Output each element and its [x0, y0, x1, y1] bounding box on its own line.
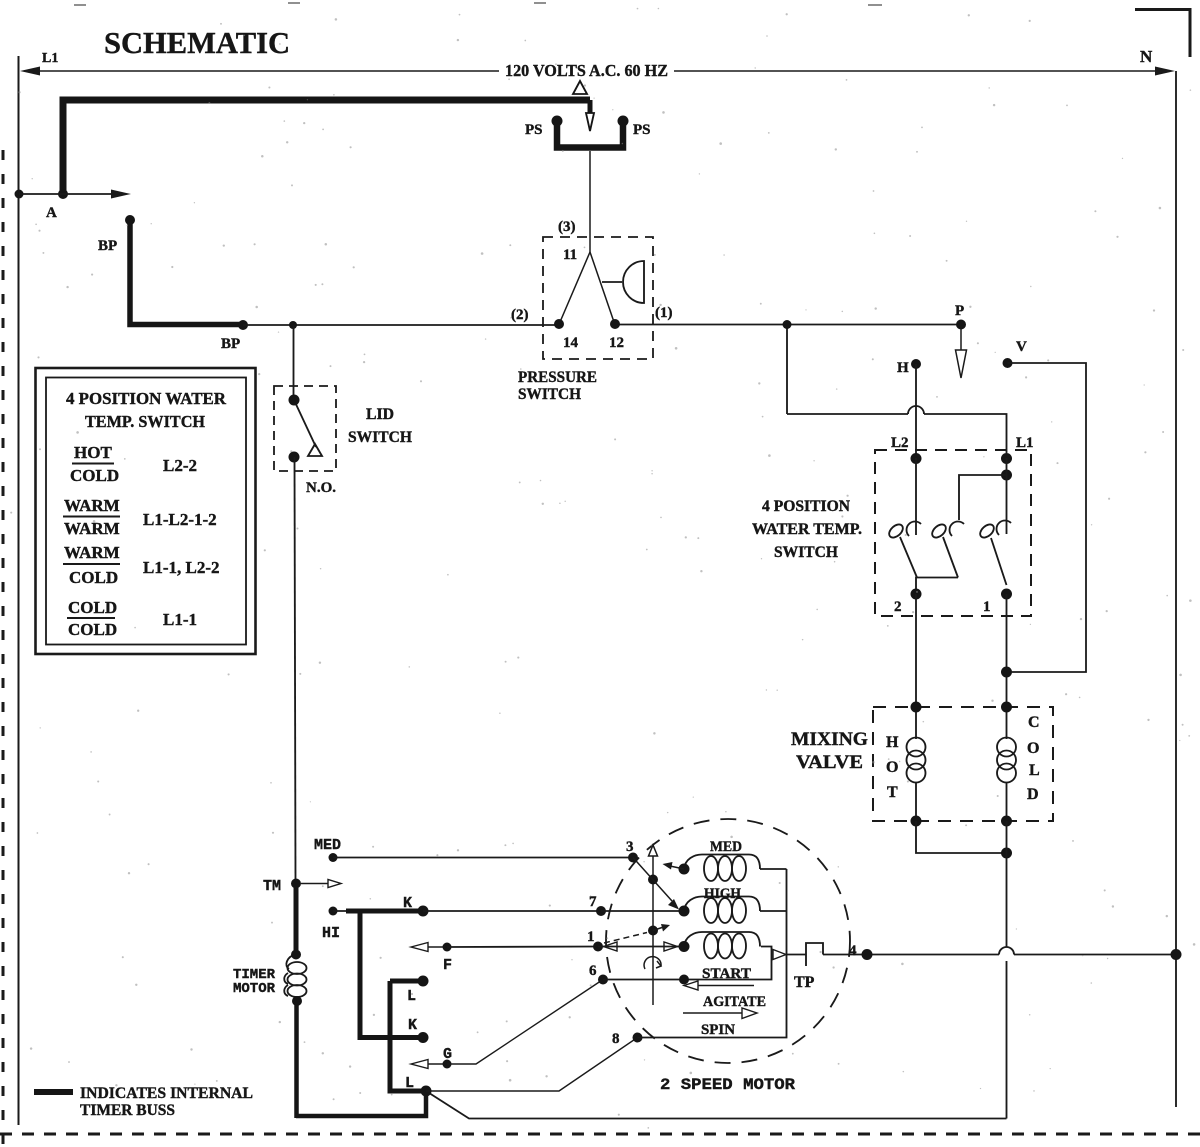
- hot solenoid coil: [907, 707, 926, 821]
- node wiper med: [648, 875, 658, 885]
- label 1: [587, 929, 595, 945]
- table row HOT/COLD: [70, 443, 197, 485]
- svg-text:8: 8: [612, 1031, 620, 1047]
- svg-text:O: O: [886, 759, 898, 776]
- svg-text:MOTOR: MOTOR: [233, 981, 276, 997]
- rotation arc: [644, 957, 661, 969]
- svg-text:TIMER BUSS: TIMER BUSS: [80, 1102, 175, 1119]
- node L2: [911, 453, 922, 464]
- legend buss sample: [34, 1089, 73, 1095]
- open arrow to TP: [773, 950, 786, 960]
- node PS left: [552, 116, 563, 127]
- svg-text:(1): (1): [655, 305, 673, 321]
- node 6 wire join: [679, 975, 689, 985]
- fraction line 1: [72, 463, 114, 465]
- label 8: [612, 1031, 620, 1047]
- label F: [443, 957, 452, 974]
- svg-text:SCHEMATIC: SCHEMATIC: [104, 25, 290, 60]
- water temp switch box: [875, 450, 1031, 616]
- table row WARM/COLD: [64, 543, 220, 587]
- motor dashed circle: [606, 819, 850, 1063]
- mixing valve box: [873, 707, 1053, 821]
- label HOT vertical: [886, 734, 899, 801]
- svg-text:N.O.: N.O.: [306, 480, 336, 496]
- svg-text:(2): (2): [511, 307, 529, 323]
- moving contact oval C: [978, 522, 997, 540]
- cold solenoid coil: [997, 707, 1016, 821]
- svg-text:3: 3: [626, 839, 634, 855]
- timer buss K bracket: [346, 911, 423, 1038]
- label MED: [314, 837, 341, 854]
- svg-text:TM: TM: [263, 878, 281, 895]
- svg-text:L: L: [405, 1075, 414, 1092]
- node BP top: [125, 215, 135, 225]
- label V: [1016, 339, 1027, 355]
- svg-text:F: F: [443, 957, 452, 974]
- wire 120V supply line with arrows: [20, 67, 1175, 76]
- label (2): [511, 307, 529, 323]
- node motor 3: [628, 853, 638, 863]
- svg-text:HIGH: HIGH: [704, 886, 741, 902]
- node L1: [1001, 453, 1012, 464]
- stationary contact cup B: [950, 522, 964, 536]
- node N border junction: [1171, 949, 1182, 960]
- wire motor 4 to N border: [867, 947, 1176, 955]
- label LID SWITCH: [348, 406, 413, 446]
- label A: [46, 205, 57, 221]
- svg-text:K: K: [408, 1017, 417, 1034]
- svg-text:2: 2: [894, 599, 902, 615]
- wire V to cold valve line: [1008, 363, 1087, 672]
- wire 1 to start coil: [598, 946, 684, 948]
- thermal protector TP: [806, 943, 863, 966]
- wire PS to pressure switch pivot: [589, 151, 591, 252]
- node cold bottom: [1001, 816, 1012, 827]
- water temp table outer box: [36, 368, 256, 654]
- wire main row to pressure switch: [243, 324, 961, 327]
- svg-text:T: T: [887, 784, 898, 801]
- svg-text:L: L: [1029, 762, 1040, 779]
- fraction line 3: [63, 563, 120, 565]
- label HIGH winding: [704, 886, 741, 902]
- node L lower: [421, 1086, 432, 1097]
- svg-text:H: H: [886, 734, 899, 751]
- svg-text:11: 11: [563, 247, 577, 263]
- wire terminal 1 to cold valve: [1006, 594, 1008, 707]
- timer motor coil: [284, 954, 306, 997]
- svg-text:4 POSITION: 4 POSITION: [762, 498, 850, 515]
- svg-text:MED: MED: [314, 837, 341, 854]
- svg-text:COLD: COLD: [69, 568, 118, 587]
- hollow down arrow below buss end: [586, 113, 594, 131]
- open arrow F: [411, 943, 447, 952]
- lid switch box: [274, 386, 336, 471]
- open arrow G: [411, 1060, 447, 1069]
- pressure switch box: [543, 237, 653, 359]
- svg-text:COLD: COLD: [68, 598, 117, 617]
- node L upper: [418, 976, 429, 987]
- svg-text:L1: L1: [42, 51, 58, 66]
- wire 7 to high coil: [601, 910, 684, 912]
- svg-text:D: D: [1027, 786, 1039, 803]
- node cold top: [1001, 702, 1012, 713]
- node MED: [329, 853, 338, 862]
- label 4 POSITION WATER TEMP. SWITCH: [752, 498, 862, 561]
- svg-text:O: O: [1027, 740, 1039, 757]
- wire 8 to L: [426, 1038, 638, 1092]
- node K upper: [418, 906, 429, 917]
- svg-text:INDICATES INTERNAL: INDICATES INTERNAL: [80, 1085, 253, 1102]
- label H: [897, 360, 909, 376]
- wire F to motor 1: [447, 946, 598, 949]
- node 14: [554, 319, 564, 329]
- svg-text:(3): (3): [558, 219, 576, 235]
- node wiper start: [648, 926, 658, 936]
- wire 8 to right bus: [638, 869, 787, 1038]
- label 6: [589, 963, 597, 979]
- svg-text:G: G: [443, 1046, 452, 1063]
- label PS right: [633, 122, 651, 138]
- label 11: [563, 247, 577, 263]
- wire bus to TP: [787, 954, 807, 956]
- node lid switch tap: [289, 321, 297, 329]
- svg-text:L1-1, L2-2: L1-1, L2-2: [143, 558, 220, 577]
- fraction line 2: [63, 516, 120, 518]
- svg-text:120 VOLTS A.C. 60 HZ: 120 VOLTS A.C. 60 HZ: [505, 61, 668, 80]
- dashed link 1 to wiper: [604, 933, 647, 944]
- label COLD vertical: [1027, 714, 1040, 803]
- svg-text:TP: TP: [794, 974, 815, 991]
- agitate direction arrow: [683, 1008, 757, 1019]
- hollow up arrow at buss end: [573, 81, 587, 94]
- svg-text:SWITCH: SWITCH: [348, 429, 413, 446]
- timer coil end dots: [291, 950, 302, 1007]
- svg-text:HOT: HOT: [74, 443, 112, 462]
- node hot bottom: [911, 816, 922, 827]
- stationary contact cup C: [997, 521, 1011, 535]
- svg-text:A: A: [46, 205, 57, 221]
- node K lower: [418, 1032, 429, 1043]
- label 12: [609, 335, 624, 351]
- svg-text:V: V: [1016, 339, 1027, 355]
- wire terminal 2 to hot valve: [915, 594, 917, 707]
- node L1: [42, 51, 58, 66]
- label 4: [849, 943, 857, 959]
- label MED winding: [710, 839, 742, 855]
- label TM: [263, 878, 281, 895]
- TM open arrow: [301, 880, 341, 888]
- label TP: [794, 974, 815, 991]
- svg-text:C: C: [1028, 714, 1040, 731]
- label 2: [894, 599, 902, 615]
- fraction line 4: [67, 617, 115, 619]
- wire cold valve return down: [426, 821, 1007, 1119]
- svg-text:LID: LID: [366, 406, 394, 423]
- svg-text:L1: L1: [1016, 435, 1034, 451]
- label L1: [1016, 435, 1034, 451]
- svg-text:1: 1: [983, 599, 991, 615]
- svg-text:PS: PS: [525, 122, 543, 138]
- timer buss L bracket: [390, 981, 426, 1091]
- label PS left: [525, 122, 543, 138]
- lid switch contacts and arm: [294, 400, 322, 456]
- label L2: [891, 435, 909, 451]
- svg-text:AGITATE: AGITATE: [703, 994, 766, 1010]
- wire L2 pole stem: [915, 458, 917, 535]
- svg-text:14: 14: [563, 335, 579, 351]
- node terminal 1: [1001, 589, 1012, 600]
- label (3): [558, 219, 576, 235]
- label SPIN: [701, 1022, 735, 1038]
- open arrow at 1: [604, 942, 618, 951]
- svg-text:WARM: WARM: [64, 519, 120, 538]
- arrow 3 to high: [633, 858, 679, 910]
- svg-text:HI: HI: [322, 925, 340, 942]
- node start left: [679, 941, 690, 952]
- svg-text:K: K: [403, 895, 412, 912]
- node A junction on L1: [15, 189, 69, 199]
- label (1): [655, 305, 673, 321]
- label MIXING VALVE: [791, 729, 868, 773]
- svg-text:H: H: [897, 360, 909, 376]
- node PS right: [618, 116, 629, 127]
- node V: [1003, 358, 1013, 368]
- wire lid switch feed: [293, 325, 295, 400]
- stationary contact cup A: [907, 522, 921, 536]
- hollow arrow below P: [956, 329, 967, 378]
- label K upper: [403, 895, 412, 912]
- arrow wiper start right: [653, 924, 670, 932]
- svg-text:WARM: WARM: [64, 543, 120, 562]
- label 2 SPEED MOTOR: [660, 1076, 795, 1094]
- node L1 inner tap: [1001, 470, 1012, 481]
- svg-text:COLD: COLD: [70, 466, 119, 485]
- node high left: [679, 906, 690, 917]
- wire arms to terminal 2: [916, 578, 958, 595]
- node F: [443, 943, 452, 952]
- svg-text:SWITCH: SWITCH: [774, 544, 839, 561]
- node motor 7: [596, 906, 606, 916]
- wire P branch down to temp switch row: [787, 325, 1007, 454]
- svg-text:L2: L2: [891, 435, 909, 451]
- label BP upper: [98, 238, 117, 254]
- label HI: [322, 925, 340, 942]
- wire L1 pole stem: [1006, 458, 1008, 534]
- wire hot valve return: [916, 821, 1007, 853]
- svg-text:SPIN: SPIN: [701, 1022, 735, 1038]
- label L upper: [407, 988, 416, 1005]
- svg-text:PRESSURE: PRESSURE: [518, 369, 597, 386]
- wire MED to motor 3: [333, 857, 633, 859]
- label 7: [589, 894, 597, 910]
- svg-text:WATER TEMP.: WATER TEMP.: [752, 521, 862, 538]
- node V join on cold line: [1001, 667, 1012, 678]
- high winding: [684, 897, 787, 924]
- moving contact oval A: [887, 522, 906, 540]
- node G: [443, 1060, 452, 1069]
- node 12: [610, 319, 620, 329]
- svg-text:SWITCH: SWITCH: [518, 386, 582, 403]
- pressure switch arms: [560, 252, 614, 322]
- svg-text:START: START: [702, 966, 751, 982]
- svg-text:MIXING: MIXING: [791, 729, 868, 750]
- wire H down to L2: [915, 364, 917, 458]
- label START winding: [702, 966, 751, 982]
- node hot top: [911, 702, 922, 713]
- svg-text:MED: MED: [710, 839, 742, 855]
- node P: [956, 320, 966, 330]
- label AGITATE: [703, 994, 766, 1010]
- node motor 1: [593, 942, 603, 952]
- label PRESSURE SWITCH: [518, 369, 597, 403]
- lid switch terminal dots: [289, 395, 300, 463]
- wire HI to K buss: [333, 910, 360, 912]
- svg-text:PS: PS: [633, 122, 651, 138]
- wire 6 to start coil return: [603, 947, 772, 980]
- svg-text:L1-L2-1-2: L1-L2-1-2: [143, 510, 217, 529]
- svg-text:2 SPEED MOTOR: 2 SPEED MOTOR: [660, 1076, 795, 1094]
- table title: [66, 389, 227, 431]
- moving contact oval B: [930, 522, 949, 540]
- label TIMER MOTOR: [233, 967, 276, 997]
- node TM: [291, 879, 301, 889]
- label 1: [983, 599, 991, 615]
- internal timer buss from A to pressure switch feed: [63, 100, 590, 194]
- node motor 8: [633, 1033, 643, 1043]
- label N.O.: [306, 480, 336, 496]
- svg-text:1: 1: [587, 929, 595, 945]
- node H: [911, 359, 921, 369]
- scan artifact marks top edge: [74, 3, 882, 5]
- label BP lower: [221, 336, 240, 352]
- switch arm B: [943, 537, 958, 578]
- table row COLD/COLD: [68, 598, 197, 639]
- title SCHEMATIC: [104, 25, 290, 60]
- node med left: [679, 864, 690, 875]
- svg-text:L1-1: L1-1: [163, 610, 197, 629]
- label L lower: [405, 1075, 414, 1092]
- pressure switch PS buss U: [557, 122, 623, 148]
- wire K to motor 7: [423, 910, 601, 912]
- svg-text:4: 4: [849, 943, 857, 959]
- svg-text:L: L: [407, 988, 416, 1005]
- open arrow before start: [664, 942, 678, 951]
- motor wiper line: [649, 845, 658, 1005]
- svg-text:4 POSITION WATER: 4 POSITION WATER: [66, 389, 227, 408]
- node P branch junction: [783, 320, 792, 329]
- switch arm A: [900, 537, 917, 578]
- arrow med to wiper: [663, 862, 685, 870]
- start direction arrow: [684, 981, 754, 990]
- svg-text:12: 12: [609, 335, 624, 351]
- svg-text:TEMP. SWITCH: TEMP. SWITCH: [85, 412, 205, 431]
- svg-text:WARM: WARM: [64, 496, 120, 515]
- label K lower: [408, 1017, 417, 1034]
- med winding: [684, 855, 787, 882]
- wire G to motor 6: [447, 980, 603, 1065]
- label 14: [563, 335, 579, 351]
- label G: [443, 1046, 452, 1063]
- svg-text:6: 6: [589, 963, 597, 979]
- node terminal 2: [911, 589, 922, 600]
- svg-text:P: P: [955, 303, 964, 319]
- wire A with arrow: [19, 190, 131, 199]
- svg-text:L2-2: L2-2: [163, 456, 197, 475]
- svg-text:BP: BP: [221, 336, 240, 352]
- svg-text:VALVE: VALVE: [796, 752, 863, 773]
- switch arm C: [991, 538, 1007, 585]
- node HI: [329, 907, 338, 916]
- svg-text:COLD: COLD: [68, 620, 117, 639]
- node BP lower: [238, 320, 248, 330]
- pressure switch diaphragm: [602, 261, 644, 303]
- label 120 VOLTS A.C. 60 HZ: [505, 61, 668, 80]
- label 3: [626, 839, 634, 855]
- timer motor buss TM drop: [296, 883, 426, 1118]
- start winding: [684, 932, 760, 959]
- legend text: [80, 1085, 253, 1119]
- buss BP drop: [130, 220, 243, 325]
- svg-text:N: N: [1140, 47, 1153, 66]
- node N: [1140, 47, 1153, 66]
- wire lid switch to TM: [295, 457, 296, 883]
- node 4: [862, 949, 873, 960]
- node motor 6: [598, 975, 608, 985]
- table row WARM/WARM: [64, 496, 217, 538]
- wire L1 tap to center pole: [959, 475, 1007, 520]
- node valve return join: [1001, 848, 1012, 859]
- label P: [955, 303, 964, 319]
- svg-text:BP: BP: [98, 238, 117, 254]
